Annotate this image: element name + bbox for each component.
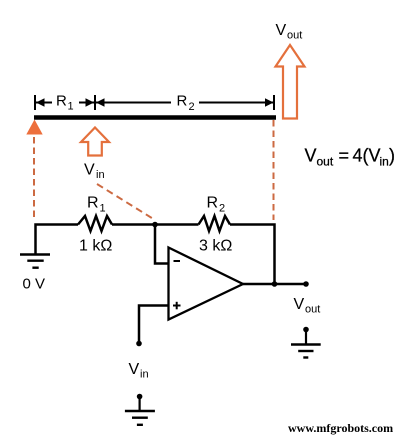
node: summing junction dot [152,222,158,228]
dimension line R1/R2 [36,91,274,111]
wire: Vin to non-inverting input [139,306,169,344]
wire: op-amp output [243,283,306,286]
wire: between R1 and R2 [112,223,199,226]
svg-text:2: 2 [189,101,195,113]
ground (output side) [291,327,321,358]
svg-text:=: = [339,146,350,166]
svg-text:V: V [276,22,287,39]
node: Vin terminal dot [136,341,142,347]
svg-text:in: in [140,369,149,381]
label R1 (resistor) [87,195,106,215]
node: feedback junction dot [272,281,278,287]
dimension arrowhead right [265,98,274,107]
op-amp minus sign [174,260,181,262]
dashed line from lever end to output node [273,120,275,220]
svg-text:): ) [389,146,395,166]
op-amp U1 [169,248,244,320]
svg-text:R: R [177,93,188,110]
wire: summing node to inverting input [155,225,169,264]
dimension arrowhead left [36,98,45,107]
resistor R1 [78,216,112,231]
dimension tick middle [94,95,96,110]
Vin arrow (orange outline, up) [81,128,109,156]
lever bar [34,115,276,120]
ground (0V, left) [20,255,50,268]
svg-text:3 kΩ: 3 kΩ [199,238,232,255]
svg-text:R: R [56,93,67,110]
svg-text:www.mfgrobots.com: www.mfgrobots.com [288,421,393,435]
dashed line from Vin label to summing node [97,184,155,220]
label R2 (dimension) [177,93,195,114]
label R2 (resistor) [207,195,226,215]
svg-text:R: R [87,195,99,212]
dimension arrowhead right of R1 [86,98,95,107]
svg-text:V: V [294,296,305,313]
svg-text:out: out [317,155,334,169]
node: output terminal dot [303,281,309,287]
fulcrum triangle (orange) [26,120,42,135]
svg-text:out: out [305,304,320,316]
dimension arrowhead left of R2 [96,98,105,107]
resistor R2 [199,216,231,231]
svg-text:V: V [84,162,95,179]
wire: R2 to output node [230,225,275,285]
label Vin (input terminal) [129,361,149,381]
label Vin (lever) [84,162,105,182]
wire: left branch down to ground [36,225,79,254]
svg-text:0 V: 0 V [23,276,46,293]
svg-text:in: in [96,169,105,181]
svg-text:4(V: 4(V [353,146,381,166]
svg-text:1 kΩ: 1 kΩ [79,238,112,255]
formula Vout = 4(Vin) [305,146,396,169]
svg-text:2: 2 [219,203,225,215]
op-amp plus sign [173,302,181,310]
svg-text:1: 1 [100,203,106,215]
Vout arrow (orange outline, up) [276,45,305,119]
svg-text:R: R [207,195,219,212]
dashed line from fulcrum to 0V node [33,137,35,220]
svg-text:out: out [287,30,302,42]
dimension tick right [273,95,275,110]
ground (input side) [125,394,155,425]
svg-text:V: V [129,361,140,378]
label Vout (lever) [276,22,303,42]
label Vout (output) [294,296,321,316]
svg-text:V: V [305,146,317,166]
dimension tick left [34,95,36,110]
svg-text:in: in [380,155,389,169]
label R1 (dimension) [56,93,74,113]
svg-text:1: 1 [68,101,74,113]
